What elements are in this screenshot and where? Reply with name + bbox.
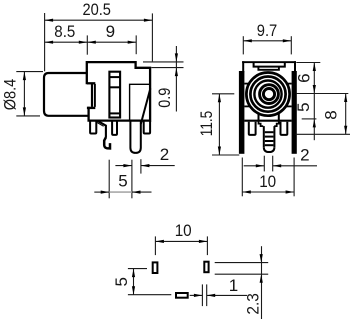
- front dim2 tick right: [272, 156, 274, 172]
- bent wire pin inner diagonal: [97, 122, 104, 126]
- contact strip bar 3: [109, 112, 120, 114]
- shoulder side right: [278, 114, 280, 121]
- svg-text:5: 5: [294, 102, 313, 111]
- pin U bottom: [264, 147, 275, 152]
- front dim10 ext left: [241, 158, 243, 197]
- side dim5 ext left: [108, 160, 110, 199]
- svg-text:1: 1: [229, 276, 238, 295]
- arrow 6 top: [313, 63, 316, 72]
- svg-text:6: 6: [294, 73, 313, 82]
- front dim10 ext right: [293, 158, 295, 197]
- arrow 0.9 down (above): [175, 53, 178, 62]
- arrow side dim2 left-point: [141, 164, 150, 167]
- 0.9 ext top: [143, 61, 184, 63]
- 0.9 ext bottom: [151, 67, 183, 69]
- ext tick body left face: [86, 35, 88, 54]
- front dim2 tick left: [263, 156, 265, 172]
- ext tick 9 right: [135, 35, 137, 54]
- dim line 20.5: [45, 19, 153, 21]
- right pad: [204, 262, 208, 273]
- seam left lower: [244, 105, 250, 107]
- fp dim10 line: [155, 240, 207, 242]
- arrow fp10 right: [199, 240, 208, 243]
- fp dim2.3 ext top: [215, 262, 269, 264]
- arrow 5 bottom outside: [313, 119, 316, 128]
- pin 2: [112, 121, 117, 135]
- contact strip outline: [109, 72, 120, 118]
- body outline: [87, 62, 150, 121]
- 11.5 dim vline: [218, 94, 220, 155]
- 0.9 dim vline: [175, 46, 177, 112]
- top frame left edge: [242, 61, 244, 72]
- ext line body right: [151, 13, 153, 61]
- fp dim2.3 ext bottom: [215, 273, 269, 275]
- dim vline 6/5 x314.3: [313, 63, 315, 141]
- contact strip bar 2: [109, 86, 120, 88]
- seam left upper: [244, 83, 249, 85]
- fp dim2.3 vline: [261, 246, 263, 319]
- dim vline 8 x345.7: [345, 94, 347, 135]
- ext line dia bottom: [16, 115, 40, 117]
- 9.7 ext right: [290, 36, 292, 54]
- front dim2 tail right: [273, 165, 317, 167]
- fp dim10 ext right: [206, 236, 208, 255]
- arrow 0.9 up (below): [175, 68, 178, 77]
- right ext y93.5 center: [296, 93, 348, 95]
- arrow side dim2 right-point: [123, 164, 131, 167]
- arrow front dim2 left-point: [273, 164, 282, 167]
- contact strip bar 1: [109, 76, 120, 78]
- side dim2 line right tail: [141, 165, 175, 167]
- arrow fp2.3 down (above): [260, 254, 263, 263]
- side dim2 tick left: [131, 160, 133, 199]
- 9.7 dim line: [243, 40, 291, 42]
- long U pin: [130, 121, 140, 153]
- svg-text:2: 2: [300, 146, 309, 165]
- right ext y119.8 short: [302, 118, 317, 120]
- arrow 9 right: [128, 41, 137, 44]
- front dim10 line: [242, 191, 294, 193]
- flange bottom bar: [87, 107, 95, 109]
- svg-text:8: 8: [322, 110, 341, 119]
- arrow fp2.3 up (below): [260, 274, 263, 283]
- circle outer: [246, 73, 289, 116]
- fp dim5 ext top: [128, 268, 147, 270]
- fp dim5 ext bottom: [128, 294, 171, 296]
- arrow 11.5 top: [218, 94, 221, 103]
- top step 1: [254, 63, 285, 67]
- arrow fp1 right-point: [194, 294, 203, 297]
- svg-text:20.5: 20.5: [82, 0, 111, 19]
- fp dim1 tail right: [207, 294, 247, 296]
- arrow fp5 bottom: [132, 286, 135, 295]
- body bottom line: [244, 120, 291, 122]
- pin 3: [144, 121, 150, 134]
- svg-text:2: 2: [160, 145, 169, 164]
- svg-text:9: 9: [106, 22, 115, 41]
- fp dim1 tail left: [190, 294, 203, 296]
- right ext y134.3: [296, 133, 351, 135]
- arrow dia down: [23, 107, 26, 116]
- bent wire pin upper diagonal: [97, 121, 106, 138]
- pin shaft left: [263, 126, 265, 147]
- front dim2 tail left: [244, 165, 265, 167]
- arrow fp1 left-point: [207, 294, 216, 297]
- seam right upper: [287, 83, 292, 85]
- arrow 20.5 right: [144, 19, 153, 22]
- top edge: [242, 61, 296, 63]
- inner rectangle right: [130, 84, 150, 120]
- top frame right edge: [294, 61, 296, 72]
- svg-text:2.3: 2.3: [244, 293, 263, 315]
- left leg: [249, 122, 256, 135]
- fp dim5 vline: [133, 269, 135, 295]
- side dim5 tail right: [132, 191, 152, 193]
- shoulder step left: [259, 122, 264, 127]
- pin rung 4: [265, 144, 274, 146]
- arrow front dim10 right: [286, 190, 295, 193]
- bottom pad: [176, 293, 188, 298]
- arrow 6 bottom: [313, 85, 316, 94]
- 11.5 ext bottom: [212, 154, 239, 156]
- svg-text:5: 5: [112, 277, 131, 286]
- flange outer vertical: [94, 84, 96, 107]
- barrel (RCA socket cylinder): [44, 73, 88, 116]
- circle 3: [254, 81, 281, 108]
- svg-text:10: 10: [175, 221, 192, 240]
- arrow fp5 top: [132, 269, 135, 278]
- arrow 9.7 left: [243, 39, 252, 42]
- svg-text:5: 5: [118, 172, 127, 191]
- arrow front dim10 left: [242, 190, 251, 193]
- pin rung 2: [265, 136, 274, 138]
- right ext y62.5: [296, 62, 320, 64]
- svg-text:9.7: 9.7: [257, 21, 278, 40]
- arrow front dim2 right-point: [256, 164, 264, 167]
- arrow 9 left: [87, 41, 96, 44]
- arrow side dim5 left-point: [132, 191, 141, 194]
- svg-text:10: 10: [259, 172, 276, 191]
- svg-text:0.9: 0.9: [155, 88, 174, 108]
- side dim5 tail left: [94, 191, 109, 193]
- circle 4 hole ring outer: [260, 85, 279, 104]
- diagonal spring line: [141, 88, 151, 124]
- side dim2 line left tail: [115, 165, 131, 167]
- side dim5 gray middle: [109, 191, 132, 193]
- dim line 8.5: [45, 41, 88, 43]
- right leg: [281, 122, 288, 135]
- circle 5 hole ring inner: [263, 89, 274, 100]
- arrow 8.5 right: [79, 41, 88, 44]
- flange top bar: [87, 82, 95, 84]
- 9.7 ext left: [242, 36, 244, 54]
- arrow dia up: [23, 72, 26, 81]
- fp dim1 tick right: [206, 284, 208, 306]
- dim line 9: [87, 41, 136, 43]
- arrow fp10 left: [155, 240, 164, 243]
- left pad: [153, 262, 158, 273]
- bent wire pin hook: [104, 137, 110, 148]
- pin shaft right: [273, 126, 275, 147]
- circle 2: [250, 77, 285, 112]
- svg-text:Ø8.4: Ø8.4: [0, 79, 19, 111]
- dim line dia 8.4: [23, 72, 25, 116]
- arrow side dim5 right-point: [101, 191, 110, 194]
- side dim2 tick right: [140, 159, 142, 173]
- arrow 9.7 right: [283, 39, 292, 42]
- top step 2: [258, 67, 279, 70]
- arrow 8 top: [344, 94, 347, 103]
- shoulder step right: [274, 122, 279, 127]
- right wall: [292, 71, 297, 154]
- ext line dia top: [16, 71, 43, 73]
- svg-text:11.5: 11.5: [197, 111, 216, 137]
- pin rung 3: [265, 140, 274, 142]
- pin rung 1: [265, 131, 274, 133]
- left wall: [239, 71, 245, 154]
- flange inner vertical: [91, 84, 93, 107]
- 11.5 ext top: [212, 93, 234, 95]
- shoulder side left: [258, 114, 260, 121]
- arrow 11.5 bottom: [218, 147, 221, 156]
- seam right lower: [286, 105, 292, 107]
- pin 1: [90, 121, 96, 134]
- arrow 20.5 left: [45, 19, 54, 22]
- fp dim1 tick left: [201, 284, 203, 306]
- svg-text:8.5: 8.5: [54, 22, 75, 41]
- ext line left (barrel tip): [44, 13, 46, 71]
- arrow 8.5 left: [45, 41, 54, 44]
- arrow 8 bottom: [344, 126, 347, 135]
- fp dim10 ext left: [154, 236, 156, 255]
